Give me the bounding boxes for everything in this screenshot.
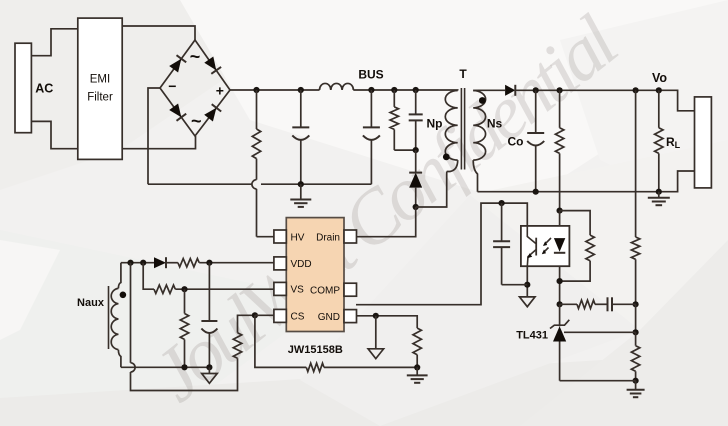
junction Vo-R3 — [557, 87, 563, 93]
svg-text:AC: AC — [35, 81, 53, 95]
wire opto collector to COMP net — [356, 203, 527, 305]
svg-text:~: ~ — [190, 47, 201, 67]
signal ground opto — [520, 297, 536, 307]
pin label VS — [291, 285, 305, 296]
label Np — [427, 117, 443, 131]
pin box VDD — [274, 257, 286, 270]
optocoupler phototransistor — [527, 226, 536, 266]
junction R13-ground — [414, 364, 420, 370]
wire LED anode into opto — [559, 211, 561, 239]
junction emitter-cap — [524, 282, 530, 288]
label AC — [35, 81, 53, 95]
wire primary ground rail — [148, 183, 252, 185]
pin label COMP — [310, 286, 340, 297]
polarity dot Np — [443, 154, 450, 161]
label EMI Filter — [87, 73, 113, 103]
junction Vo-Co — [533, 87, 539, 93]
bridge plus mark — [216, 83, 224, 99]
resistor R1 HV startup — [252, 90, 260, 237]
junction C1-ground rail — [298, 181, 304, 187]
junction VS-R10 — [181, 286, 187, 292]
pin box COMP — [344, 283, 357, 296]
junction bus-C2 — [368, 87, 374, 93]
capacitor C5 VDD — [201, 263, 217, 368]
optocoupler light arrows — [542, 238, 551, 254]
bridge AC mark bottom — [191, 111, 202, 131]
junction aux-VS branch — [140, 260, 146, 266]
wire aux-CS sense path — [131, 263, 238, 391]
diode D5 clamp — [409, 150, 422, 207]
junction R10-aux rail — [181, 364, 187, 370]
pin label HV — [291, 232, 305, 243]
resistor R2 clamp — [390, 90, 416, 150]
resistor R4 LED parallel — [560, 211, 595, 282]
label Co — [508, 135, 524, 149]
pin label VDD — [291, 259, 312, 270]
wire R1 to HV pin — [257, 236, 274, 238]
wire bus rail after inductor — [353, 89, 457, 92]
junction drain node — [413, 204, 419, 210]
diode D7 VDD — [154, 257, 166, 268]
svg-text:COMP: COMP — [310, 286, 340, 297]
resistor R5 divider upper — [631, 90, 639, 304]
svg-text:TL431: TL431 — [516, 330, 548, 342]
bridge diode D4 — [204, 104, 221, 121]
svg-text:Co: Co — [508, 135, 524, 149]
svg-text:T: T — [459, 67, 467, 81]
wire opto emitter to ground node — [526, 266, 528, 297]
label TL431 — [516, 330, 548, 342]
junction REF node — [633, 329, 639, 335]
EMI filter block — [78, 18, 122, 159]
optocoupler LED — [554, 238, 565, 253]
junction Co-return — [533, 189, 539, 195]
wire LED cathode down — [559, 253, 561, 304]
wire drain node to Drain pin — [357, 207, 416, 237]
junction LED anode node — [557, 208, 563, 214]
junction GND node — [373, 313, 379, 319]
pin label GND — [318, 312, 340, 323]
pin label CS — [291, 312, 305, 323]
junction bus-R1 — [253, 87, 259, 93]
junction LED cathode-R4 — [557, 278, 563, 284]
wire aux bottom rail — [121, 366, 209, 368]
wire AC top stub to EMI — [31, 29, 77, 56]
wire CS node to pin — [255, 314, 274, 316]
svg-text:CS: CS — [291, 312, 305, 323]
resistor R9 VS — [143, 263, 274, 294]
label Ns — [487, 117, 503, 131]
resistor R8 VDD — [166, 259, 274, 267]
pin label Drain — [316, 232, 340, 243]
junction bus-clampC — [413, 87, 419, 93]
signal ground GND pin — [368, 316, 384, 359]
svg-text:HV: HV — [291, 232, 305, 243]
svg-text:EMI: EMI — [90, 73, 110, 85]
ground divider — [627, 381, 645, 398]
diode D6 output — [505, 85, 515, 96]
pin box VS — [274, 282, 286, 295]
wire aux top rail — [121, 262, 154, 264]
transformer core T — [461, 88, 464, 170]
wire TL431 REF to divider — [564, 331, 636, 333]
wire primary ground rail right — [261, 183, 371, 185]
bridge minus mark — [168, 78, 176, 94]
bridge diode D3 — [169, 104, 186, 121]
resistor R10 VS lower — [180, 289, 188, 367]
wire AC bottom stub to EMI — [31, 121, 77, 148]
resistor R12 CS to gnd — [255, 315, 417, 371]
svg-text:Naux: Naux — [77, 297, 105, 309]
junction TL431 anode rail — [633, 378, 639, 384]
junction CS node — [252, 312, 258, 318]
junction C5-aux rail — [206, 364, 212, 370]
label JW15158B — [288, 344, 343, 356]
pin box HV — [274, 230, 286, 243]
svg-text:Np: Np — [427, 117, 443, 131]
resistor R3 LED bias — [555, 90, 563, 210]
wire bridge minus to ground rail — [148, 88, 160, 184]
polarity dot Naux — [120, 292, 127, 299]
junction TL431 cathode node — [557, 301, 563, 307]
wire clamp to Np bottom — [416, 172, 447, 208]
svg-text:JW15158B: JW15158B — [288, 344, 343, 356]
IC U1 JW15158B body — [286, 218, 344, 332]
resistor R13 GND — [413, 328, 421, 367]
bridge diode D1 — [169, 55, 186, 72]
svg-text:VS: VS — [291, 285, 305, 296]
pin box GND — [344, 310, 357, 323]
svg-text:BUS: BUS — [358, 68, 383, 82]
resistor R11 CS — [233, 315, 255, 358]
wire output rail — [515, 90, 694, 111]
junction aux-CS branch — [127, 260, 133, 266]
ground primary — [290, 184, 311, 207]
label T — [459, 67, 467, 81]
pin box Drain — [344, 230, 357, 243]
ground output — [648, 192, 670, 206]
load block — [695, 97, 712, 188]
signal ground aux — [202, 367, 218, 383]
junction RL-return — [656, 189, 662, 195]
resistor RL load — [655, 90, 663, 191]
capacitor C4 COMP — [493, 203, 527, 285]
capacitor C3 clamp — [409, 90, 423, 150]
svg-text:+: + — [216, 83, 224, 99]
junction Vo-divider — [633, 87, 639, 93]
pin box CS — [274, 309, 286, 322]
aux winding Naux — [111, 263, 121, 368]
junction bus-clampR — [391, 87, 397, 93]
wire secondary return rail — [478, 171, 695, 192]
svg-text:RL: RL — [666, 135, 681, 150]
junction COMP cap top — [499, 200, 505, 206]
wire Ns top to output diode — [478, 89, 506, 91]
svg-text:Filter: Filter — [87, 92, 113, 104]
wire EMI bottom to bridge AC node — [122, 136, 195, 149]
capacitor C2 bulk — [363, 90, 380, 184]
svg-text:−: − — [168, 78, 176, 94]
polarity dot Ns — [479, 97, 486, 104]
bridge rectifier frame — [160, 40, 230, 136]
wire GND pin net — [357, 316, 418, 328]
svg-text:~: ~ — [191, 111, 202, 131]
AC source block — [15, 43, 31, 133]
junction clamp RC — [413, 147, 419, 153]
junction Vo-RL — [656, 87, 662, 93]
wire TL431 anode to ground rail — [560, 380, 636, 382]
capacitor C7 compensation — [595, 297, 636, 311]
TL431 U3 — [550, 304, 569, 380]
svg-text:Drain: Drain — [316, 232, 340, 243]
watermark JoulWatt Confidential — [137, 2, 631, 420]
label RL — [666, 135, 681, 150]
optocoupler U2 box — [521, 226, 570, 266]
label BUS — [358, 68, 383, 82]
resistor R7 compensation — [560, 300, 595, 308]
capacitor C1 bulk — [292, 90, 309, 184]
wire hop of HV lead over rail — [252, 180, 257, 189]
inductor L1 BUS — [320, 83, 354, 90]
svg-text:VDD: VDD — [291, 259, 312, 270]
ground R13 — [407, 367, 428, 382]
capacitor Co — [527, 90, 544, 191]
junction VDD-cap — [206, 260, 212, 266]
transformer secondary winding Ns — [473, 90, 485, 191]
resistor R6 divider lower — [631, 332, 639, 380]
label Vo — [652, 71, 667, 85]
wire EMI top to bridge top — [122, 26, 195, 40]
wire FB node to REF node — [635, 304, 637, 332]
svg-text:GND: GND — [318, 312, 340, 323]
svg-text:Ns: Ns — [487, 117, 503, 131]
junction bus-C1 — [298, 87, 304, 93]
wire bus rail — [230, 89, 320, 91]
transformer primary winding Np — [445, 91, 457, 172]
bridge AC mark top — [190, 47, 201, 67]
aux winding core — [108, 286, 110, 349]
junction FB node — [633, 301, 639, 307]
svg-text:Vo: Vo — [652, 71, 667, 85]
label Naux winding — [77, 297, 105, 309]
bridge diode D2 — [204, 57, 221, 74]
